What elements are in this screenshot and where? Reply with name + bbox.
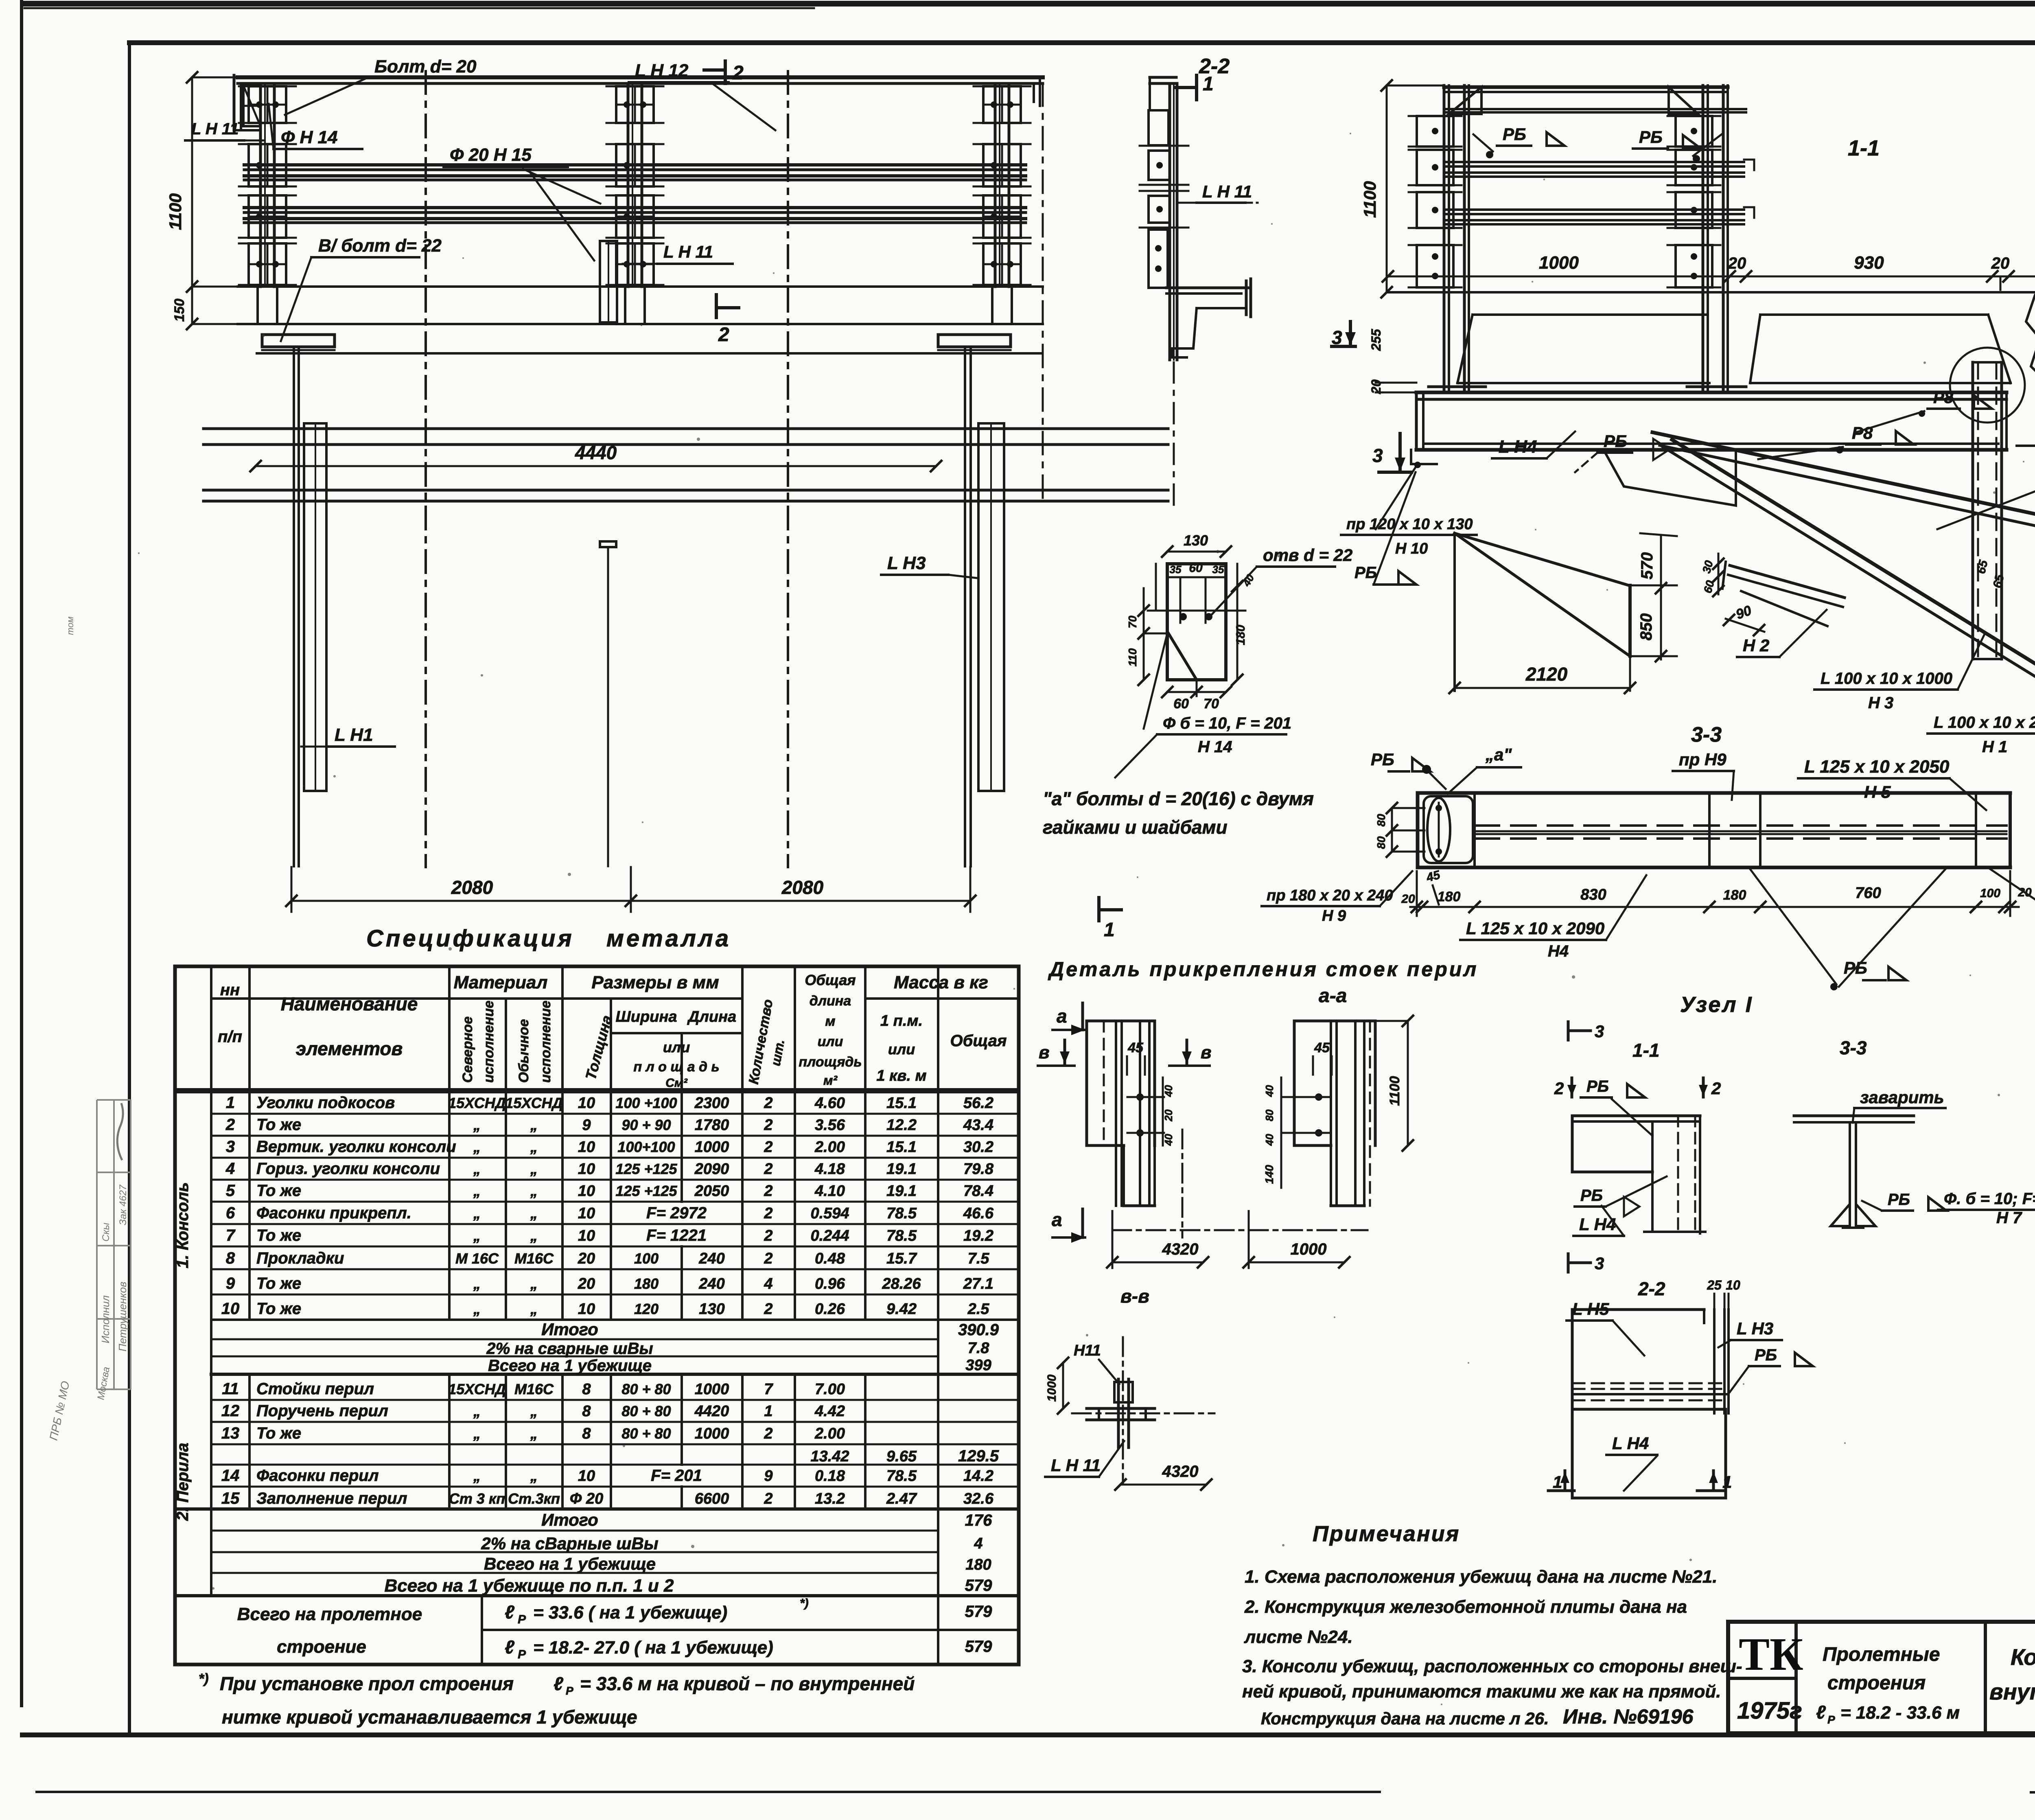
svg-text:2090: 2090 [694,1161,729,1178]
svg-text:2: 2 [764,1095,772,1112]
svg-text:а: а [1057,1005,1067,1027]
svg-text:L 100 x 10 x 1000: L 100 x 10 x 1000 [1821,670,1952,688]
svg-text:60: 60 [1173,696,1189,712]
svg-text:2: 2 [764,1250,772,1267]
svg-text:120: 120 [634,1301,659,1317]
svg-text:1000: 1000 [1291,1240,1327,1258]
svg-text:28.26: 28.26 [882,1275,921,1292]
svg-text:L Н 11: L Н 11 [663,242,713,261]
svg-text:„: „ [473,1403,481,1419]
svg-text:5: 5 [226,1182,235,1200]
svg-text:Фасонки прикрепл.: Фасонки прикрепл. [256,1204,411,1222]
svg-text:70: 70 [1126,615,1139,629]
svg-text:РБ: РБ [1586,1078,1609,1095]
svg-text:7.8: 7.8 [968,1340,990,1357]
svg-text:3: 3 [1372,445,1383,466]
svg-text:100: 100 [1980,887,2000,900]
svg-text:78.5: 78.5 [886,1227,917,1244]
svg-text:„: „ [530,1301,538,1317]
svg-text:2080: 2080 [781,877,824,898]
svg-text:176: 176 [965,1511,992,1529]
svg-text:30.2: 30.2 [963,1139,993,1156]
svg-text:Северное: Северное [460,1016,475,1083]
svg-text:255: 255 [1369,329,1383,351]
svg-text:„: „ [530,1467,538,1484]
svg-text:пр 180 x 20 x 240: пр 180 x 20 x 240 [1267,887,1393,904]
svg-text:Общая: Общая [950,1032,1007,1050]
svg-text:78.5: 78.5 [886,1467,917,1485]
svg-text:1975г: 1975г [1737,1697,1802,1724]
svg-text:570: 570 [1638,552,1656,580]
svg-text:10: 10 [578,1183,595,1200]
svg-text:3: 3 [1595,1022,1604,1041]
svg-text:а: а [1052,1209,1062,1230]
svg-text:„: „ [530,1183,538,1199]
svg-text:*): *) [800,1597,809,1610]
svg-text:20: 20 [1728,254,1746,272]
svg-text:Ст 3 кп: Ст 3 кп [449,1490,505,1507]
svg-text:13: 13 [221,1424,240,1442]
svg-text:Ф б = 10, F = 201: Ф б = 10, F = 201 [1163,714,1291,732]
svg-text:1: 1 [1553,1472,1562,1491]
svg-text:Общая: Общая [805,972,856,988]
svg-text:7: 7 [226,1226,236,1244]
svg-text:ТК: ТК [1739,1628,1803,1680]
svg-text:80 + 80: 80 + 80 [621,1403,671,1419]
svg-text:2-2: 2-2 [1638,1278,1665,1299]
svg-text:РБ: РБ [1354,564,1377,582]
svg-text:Спецификация: Спецификация [366,925,574,952]
svg-text:80: 80 [1375,814,1387,827]
svg-text:L 125 x 10 x 2090: L 125 x 10 x 2090 [1466,919,1604,938]
svg-text:8: 8 [582,1403,591,1420]
svg-text:L Н3: L Н3 [1737,1319,1773,1338]
svg-text:2: 2 [764,1161,772,1178]
svg-text:35: 35 [1170,563,1182,576]
svg-text:отв d = 22: отв d = 22 [1263,545,1352,565]
svg-text:27.1: 27.1 [963,1275,993,1292]
svg-text:Прокладки: Прокладки [256,1249,344,1267]
svg-text:45: 45 [1127,1040,1144,1056]
svg-text:М16С: М16С [514,1381,554,1397]
svg-text:Масса в кг: Масса в кг [894,972,988,992]
svg-text:15.7: 15.7 [886,1250,917,1267]
svg-text:2: 2 [764,1205,772,1222]
svg-text:15ХСНД: 15ХСНД [448,1381,506,1397]
svg-text:2: 2 [764,1183,772,1200]
svg-text:Н 7: Н 7 [1996,1209,2022,1227]
svg-text:0.26: 0.26 [815,1301,845,1318]
svg-text:4: 4 [764,1275,772,1292]
svg-text:Инв. №69196: Инв. №69196 [1563,1705,1694,1728]
svg-text:14: 14 [221,1467,240,1485]
svg-text:1100: 1100 [166,193,185,230]
svg-text:2050: 2050 [694,1183,729,1200]
svg-text:м: м [825,1014,835,1029]
svg-text:180: 180 [1438,889,1461,905]
svg-text:М16С: М16С [514,1250,554,1267]
svg-text:1000: 1000 [695,1425,729,1442]
svg-text:Итого: Итого [541,1510,598,1529]
svg-text:Ф 20 Н 15: Ф 20 Н 15 [450,145,532,165]
svg-text:строение: строение [277,1637,366,1657]
svg-text:79.8: 79.8 [963,1161,994,1178]
svg-text:1: 1 [764,1403,772,1420]
svg-text:850: 850 [1637,613,1655,641]
svg-text:Поручень перил: Поручень перил [256,1402,388,1420]
svg-text:930: 930 [1854,253,1884,273]
svg-text:1000: 1000 [1539,253,1579,273]
svg-text:М 16С: М 16С [455,1250,499,1267]
svg-text:10: 10 [1726,1278,1740,1292]
svg-text:То же: То же [256,1275,301,1292]
svg-text:9: 9 [582,1117,591,1134]
svg-text:Н 10: Н 10 [1395,540,1428,557]
svg-text:78.4: 78.4 [963,1183,993,1200]
svg-text:Вертик. уголки консоли: Вертик. уголки консоли [256,1138,456,1156]
svg-text:Р: Р [518,1613,526,1626]
svg-text:Конструкция дана на листе: Конструкция дана на листе л 26. [1261,1709,1549,1728]
svg-text:РБ: РБ [1503,125,1526,144]
svg-text:579: 579 [965,1603,992,1621]
svg-text:РБ: РБ [1639,127,1663,147]
svg-text:„: „ [473,1227,481,1244]
svg-text:„: „ [473,1425,481,1442]
svg-text:= 18.2- 27.0 ( на 1 убежищ: = 18.2- 27.0 ( на 1 убежище) [533,1638,773,1658]
svg-text:40: 40 [1162,1085,1175,1097]
svg-text:ℓ: ℓ [554,1673,563,1694]
svg-text:1. Схема расположения убе: 1. Схема расположения убежищ дана на лис… [1245,1567,1717,1587]
svg-text:180: 180 [965,1556,991,1573]
svg-text:20: 20 [1401,892,1415,906]
svg-text:4: 4 [974,1535,982,1552]
svg-text:4.18: 4.18 [814,1161,845,1178]
svg-text:= 18.2 - 33.6 м: = 18.2 - 33.6 м [1840,1703,1960,1723]
svg-text:8: 8 [582,1425,591,1442]
svg-text:Всего на 1 убежище: Всего на 1 убежище [488,1357,652,1375]
svg-text:Размеры в мм: Размеры в мм [591,972,719,992]
svg-text:2-2: 2-2 [1199,55,1230,78]
svg-text:2120: 2120 [1525,664,1568,685]
svg-text:в: в [1201,1043,1212,1062]
svg-text:нн: нн [220,981,240,999]
svg-text:4440: 4440 [575,442,617,463]
svg-text:14.2: 14.2 [963,1467,993,1485]
svg-text:То же: То же [256,1300,301,1318]
svg-text:1: 1 [1104,919,1115,941]
svg-text:То же: То же [256,1182,301,1200]
svg-text:Обычное: Обычное [516,1019,532,1083]
svg-text:56.2: 56.2 [963,1095,993,1112]
svg-text:0.96: 0.96 [815,1275,845,1292]
svg-text:1000: 1000 [695,1381,729,1398]
svg-text:Н 9: Н 9 [1322,907,1346,924]
svg-text:„: „ [473,1301,481,1317]
svg-text:20: 20 [1991,254,2010,272]
svg-text:32.6: 32.6 [963,1490,994,1507]
svg-text:125 +125: 125 +125 [615,1183,677,1199]
svg-text:100: 100 [634,1250,659,1267]
svg-text:1-1: 1-1 [1632,1040,1659,1061]
svg-text:9.65: 9.65 [886,1448,917,1465]
svg-text:внутренней нитке кривой: внутренней нитке кривой [1989,1679,2035,1704]
svg-text:в-в: в-в [1120,1286,1149,1307]
svg-text:Уголки подкосов: Уголки подкосов [256,1094,395,1112]
svg-text:2. Конструкция железобетон: 2. Конструкция железобетонной плиты дана… [1244,1597,1687,1617]
svg-text:4.10: 4.10 [814,1183,845,1200]
svg-text:90 + 90: 90 + 90 [621,1117,671,1133]
svg-text:F= 201: F= 201 [651,1467,702,1485]
svg-text:1 кв. м: 1 кв. м [876,1067,926,1084]
svg-text:Зак 4627: Зак 4627 [118,1184,129,1225]
svg-text:2% на сварные шВы: 2% на сварные шВы [486,1340,653,1358]
svg-text:„: „ [473,1139,481,1155]
svg-text:F= 2972: F= 2972 [646,1204,707,1222]
svg-text:металла: металла [606,925,731,952]
svg-text:листе №24.: листе №24. [1244,1627,1353,1647]
svg-text:Н 3: Н 3 [1868,694,1893,712]
svg-text:180: 180 [1723,887,1746,903]
svg-text:3: 3 [1595,1254,1604,1273]
svg-text:или: или [818,1034,843,1049]
svg-text:150: 150 [172,299,187,322]
svg-text:Пролетные: Пролетные [1823,1644,1940,1665]
svg-text:Р: Р [1827,1713,1835,1726]
svg-text:Ширина: Ширина [616,1008,677,1025]
svg-text:= 33.6 м на кривой – по внут: = 33.6 м на кривой – по внутренней [580,1673,915,1694]
svg-text:п л о щ а д ь: п л о щ а д ь [633,1059,719,1075]
svg-text:строения: строения [1827,1672,1926,1694]
svg-text:„: „ [473,1467,481,1484]
svg-text:L Н 11: L Н 11 [1051,1456,1101,1475]
svg-text:Петрушенков: Петрушенков [116,1281,129,1351]
svg-text:заварить: заварить [1860,1088,1944,1107]
svg-text:45: 45 [1314,1040,1330,1056]
svg-text:Консоли убежищ по: Консоли убежищ по [2011,1644,2035,1670]
svg-text:40: 40 [1162,1134,1175,1146]
svg-text:78.5: 78.5 [886,1205,917,1222]
svg-text:ℓ: ℓ [505,1636,514,1658]
svg-text:= 33.6 ( на 1 убежище): = 33.6 ( на 1 убежище) [533,1603,727,1623]
svg-text:2.00: 2.00 [814,1139,845,1156]
svg-text:„: „ [473,1275,481,1292]
svg-text:12: 12 [221,1402,240,1420]
svg-text:площядь: площядь [799,1054,862,1070]
svg-text:Узел I: Узел I [1680,992,1753,1017]
svg-text:10: 10 [578,1227,595,1244]
svg-text:L Н4: L Н4 [1612,1434,1649,1453]
svg-text:Ст.3кп: Ст.3кп [508,1490,560,1507]
svg-text:3: 3 [1332,327,1342,348]
svg-text:Фасонки перил: Фасонки перил [256,1467,379,1485]
svg-text:46.6: 46.6 [963,1205,994,1222]
svg-text:10: 10 [221,1300,240,1318]
svg-text:ℓ: ℓ [1816,1702,1826,1723]
svg-text:То же: То же [256,1226,301,1244]
svg-text:760: 760 [1855,885,1881,902]
svg-text:390.9: 390.9 [958,1321,999,1339]
svg-text:F= 1221: F= 1221 [646,1226,707,1244]
svg-text:2300: 2300 [694,1095,729,1112]
svg-text:4.42: 4.42 [814,1403,845,1420]
svg-text:Гориз. уголки консоли: Гориз. уголки консоли [256,1160,440,1178]
svg-text:Н11: Н11 [1074,1342,1101,1359]
svg-text:100+100: 100+100 [617,1139,675,1155]
svg-text:15ХСНД: 15ХСНД [448,1095,506,1111]
svg-text:„: „ [530,1425,538,1442]
svg-text:L 100 x 10 x 2900: L 100 x 10 x 2900 [1934,714,2035,732]
svg-text:399: 399 [965,1357,991,1374]
svg-text:Всего на пролетное: Всего на пролетное [237,1604,422,1624]
svg-text:„: „ [530,1403,538,1419]
svg-text:При установке прол строения: При установке прол строения [220,1673,514,1694]
svg-text:19.1: 19.1 [886,1161,917,1178]
svg-text:80 + 80: 80 + 80 [621,1381,671,1397]
svg-text:240: 240 [698,1250,724,1267]
svg-text:2. Перила: 2. Перила [174,1443,192,1521]
svg-text:исполнение: исполнение [538,1001,554,1083]
svg-text:11: 11 [222,1380,239,1398]
svg-text:L 125 x 10 x 2050: L 125 x 10 x 2050 [1804,757,1950,777]
svg-text:„: „ [473,1161,481,1177]
svg-text:4320: 4320 [1162,1463,1199,1481]
svg-text:Н 1: Н 1 [1982,738,2007,756]
svg-text:0.18: 0.18 [815,1467,845,1485]
svg-text:п/п: п/п [218,1028,242,1046]
svg-text:2: 2 [764,1425,772,1442]
svg-text:12.2: 12.2 [886,1117,917,1134]
svg-text:Всего на 1 убежище по п.п.: Всего на 1 убежище по п.п. 1 и 2 [384,1576,674,1596]
svg-text:длина: длина [810,993,851,1009]
svg-text:240: 240 [698,1275,724,1292]
svg-text:Р8: Р8 [1933,389,1954,407]
svg-text:исполнение: исполнение [481,1001,497,1083]
svg-text:"а" болты d = 20(16) с двумя: "а" болты d = 20(16) с двумя [1043,788,1314,809]
svg-text:1: 1 [1722,1472,1732,1491]
svg-text:4320: 4320 [1162,1240,1199,1258]
svg-text:125 +125: 125 +125 [615,1161,677,1177]
svg-text:гайками и шайбами: гайками и шайбами [1043,817,1228,838]
svg-text:15.1: 15.1 [886,1139,917,1156]
svg-text:РБ: РБ [1888,1191,1910,1209]
svg-text:10: 10 [578,1139,595,1156]
svg-text:Н 14: Н 14 [1198,738,1232,756]
svg-text:43.4: 43.4 [963,1117,993,1134]
svg-text:том: том [65,617,75,635]
svg-text:1000: 1000 [1045,1374,1059,1402]
svg-text:Длина: Длина [687,1008,736,1025]
svg-text:Скы: Скы [101,1222,112,1242]
svg-text:L Н 11: L Н 11 [1202,182,1252,201]
svg-text:9: 9 [764,1467,772,1485]
svg-text:Заполнение перил: Заполнение перил [256,1489,407,1507]
svg-text:Р8: Р8 [1852,423,1873,442]
svg-text:10: 10 [578,1161,595,1178]
svg-text:1: 1 [226,1094,235,1112]
svg-text:110: 110 [1126,648,1139,666]
svg-text:140: 140 [1263,1165,1276,1184]
svg-text:129.5: 129.5 [958,1447,999,1465]
svg-text:20: 20 [578,1250,595,1267]
svg-text:2% на сВарные шВы: 2% на сВарные шВы [481,1534,658,1553]
svg-text:6: 6 [226,1204,235,1222]
svg-text:19.1: 19.1 [886,1183,917,1200]
svg-text:пр 120 x 10 x 130: пр 120 x 10 x 130 [1346,516,1473,533]
svg-text:„: „ [530,1161,538,1177]
svg-text:130: 130 [699,1301,724,1318]
svg-text:2.47: 2.47 [886,1490,917,1507]
svg-text:РБ: РБ [1371,750,1394,769]
svg-text:Исполнил: Исполнил [99,1295,112,1343]
svg-text:„: „ [530,1227,538,1244]
svg-text:8: 8 [582,1381,591,1398]
svg-text:элементов: элементов [296,1038,403,1059]
svg-text:Примечания: Примечания [1313,1522,1460,1546]
svg-text:10: 10 [578,1095,595,1112]
svg-text:6600: 6600 [695,1490,729,1507]
svg-text:1780: 1780 [695,1117,729,1134]
svg-text:„: „ [473,1205,481,1222]
svg-text:20: 20 [578,1275,595,1292]
svg-text:10: 10 [578,1205,595,1222]
svg-text:м²: м² [823,1073,838,1088]
svg-text:2: 2 [764,1139,772,1156]
svg-text:Итого: Итого [541,1320,598,1339]
svg-text:9: 9 [226,1275,235,1292]
svg-text:2: 2 [732,62,744,84]
svg-text:1000: 1000 [695,1139,729,1156]
svg-text:10: 10 [578,1301,595,1318]
svg-text:9.42: 9.42 [886,1301,917,1318]
svg-text:1100: 1100 [1387,1076,1403,1106]
svg-text:„: „ [473,1183,481,1199]
svg-text:L Н4: L Н4 [1499,437,1537,457]
svg-text:40: 40 [1263,1085,1276,1097]
svg-text:7.00: 7.00 [815,1381,845,1398]
svg-text:„: „ [473,1117,481,1133]
svg-text:РБ: РБ [1580,1187,1603,1205]
svg-text:Материал: Материал [454,972,548,992]
svg-text:Р: Р [518,1648,526,1661]
svg-text:15ХСНД: 15ХСНД [505,1095,563,1111]
svg-text:20: 20 [1162,1109,1175,1121]
svg-text:Ф Н 14: Ф Н 14 [281,127,338,147]
svg-text:35: 35 [1212,563,1224,576]
svg-text:80: 80 [1375,836,1387,849]
svg-text:2: 2 [718,324,729,346]
svg-text:Наименование: Наименование [281,993,418,1014]
svg-text:80 + 80: 80 + 80 [621,1425,671,1442]
svg-text:*): *) [199,1671,209,1686]
svg-text:L Н 11: L Н 11 [191,120,239,138]
svg-text:в: в [1039,1043,1050,1062]
svg-text:15: 15 [221,1489,240,1507]
svg-text:0.594: 0.594 [810,1205,849,1222]
svg-text:2: 2 [764,1227,772,1244]
svg-text:1. Консоль: 1. Консоль [174,1182,192,1268]
svg-text:2: 2 [225,1116,235,1134]
svg-text:15.1: 15.1 [886,1095,917,1112]
svg-text:ней кривой, принимаются таки: ней кривой, принимаются такими же как на… [1242,1682,1721,1702]
svg-text:См²: См² [665,1076,688,1090]
svg-text:130: 130 [1184,532,1208,549]
svg-text:7.5: 7.5 [968,1250,990,1267]
svg-text:2080: 2080 [451,877,493,898]
svg-text:3-3: 3-3 [1840,1037,1867,1058]
svg-text:3. Консоли убежищ, расположе: 3. Консоли убежищ, расположенных со стор… [1242,1656,1742,1676]
svg-text:„: „ [530,1139,538,1155]
svg-text:19.2: 19.2 [963,1227,993,1244]
